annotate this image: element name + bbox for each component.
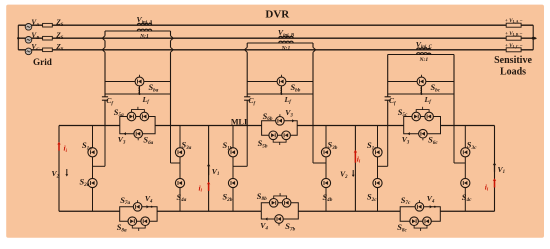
svg-text:N:1: N:1	[418, 57, 428, 63]
svg-text:Sensitive: Sensitive	[494, 55, 532, 66]
svg-text:N:1: N:1	[139, 34, 149, 40]
svg-text:Grid: Grid	[33, 57, 52, 67]
svg-text:N:1: N:1	[281, 46, 291, 52]
svg-text:Loads: Loads	[500, 67, 526, 78]
svg-text:DVR: DVR	[265, 9, 290, 21]
